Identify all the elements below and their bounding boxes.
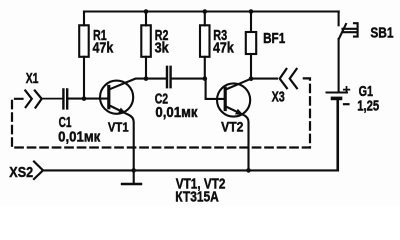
svg-text:XS2: XS2 [9,165,33,181]
wire dashed enclosure [12,78,310,147]
node top R2 [144,9,149,14]
wire VT2 collector to X3 [251,78,277,80]
svg-text:КТ315А: КТ315А [175,190,219,206]
node emitter VT1 on rail [131,168,136,173]
socket X3 [272,69,297,106]
node collector VT1 [144,76,149,81]
pushbutton SB1 [339,12,394,91]
svg-text:0,01мк: 0,01мк [58,130,101,146]
node emitter VT2 on rail [246,168,251,173]
plug X1 [25,71,62,108]
svg-text:X1: X1 [26,71,39,87]
wire top supply rail [84,10,339,12]
resistor R3 [200,12,235,79]
svg-text:VT2: VT2 [221,119,243,134]
node top R3 [203,9,208,14]
node base VT1 [82,96,87,101]
resistor R2 [141,12,169,79]
svg-text:VT1: VT1 [108,119,129,134]
node top BF1 [249,9,254,14]
resistor R1 [79,12,114,99]
svg-text:1,25: 1,25 [357,99,379,115]
svg-text:3k: 3k [155,40,170,56]
socket XS2 [9,162,43,182]
capacitor C1 [58,89,109,145]
ground [122,170,141,184]
svg-text:C1: C1 [59,115,72,131]
wire bottom common rail [44,100,338,170]
node collector VT2 [249,76,254,81]
earphone BF1 [246,12,285,79]
capacitor C2 [155,67,199,121]
label transistor types [175,177,225,206]
transistor VT1 [100,79,166,171]
node base VT2 [203,76,208,81]
wire C2 right to VT2 base node [172,78,205,80]
svg-text:47k: 47k [93,40,115,56]
transistor VT2 [206,79,251,171]
svg-text:0,01мк: 0,01мк [155,105,198,121]
svg-text:47k: 47k [213,40,235,56]
battery G1 [327,84,380,170]
svg-text:SB1: SB1 [370,26,393,42]
svg-text:X3: X3 [272,90,285,106]
svg-text:BF1: BF1 [263,31,285,47]
